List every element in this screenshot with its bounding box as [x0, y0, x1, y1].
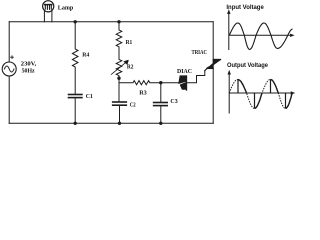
svg-text:R1: R1	[126, 39, 133, 46]
svg-text:R2: R2	[127, 64, 134, 71]
svg-text:C3: C3	[170, 98, 177, 105]
svg-text:R4: R4	[82, 52, 90, 59]
svg-text:C2: C2	[130, 101, 136, 108]
svg-text:R3: R3	[139, 89, 147, 96]
svg-text:TRIAC: TRIAC	[192, 50, 208, 56]
svg-text:DIAC: DIAC	[177, 69, 192, 75]
svg-text:Input Voltage: Input Voltage	[226, 4, 264, 11]
svg-text:C1: C1	[86, 93, 93, 100]
svg-text:Output Voltage: Output Voltage	[227, 62, 268, 69]
svg-text:Lamp: Lamp	[58, 5, 74, 12]
svg-text:50Hz: 50Hz	[22, 68, 35, 75]
svg-text:230V,: 230V,	[21, 61, 37, 68]
